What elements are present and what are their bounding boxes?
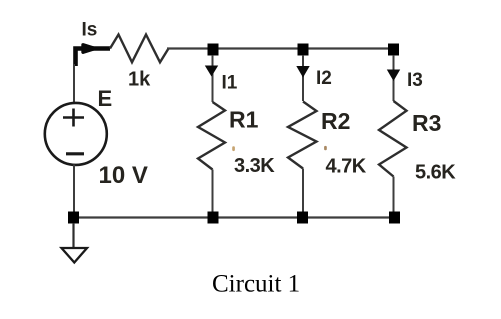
wire: R2 column upper (302, 55, 304, 101)
arrow I3 (387, 70, 400, 82)
artifact mark near R2 value (324, 146, 327, 150)
wire: R3 column upper (393, 55, 395, 101)
node junction top J3 (388, 44, 399, 56)
svg-text:R2: R2 (321, 108, 350, 134)
wire: ground stem (72, 223, 74, 248)
node junction bottom B1 (208, 212, 219, 224)
resistor R2 zigzag (288, 102, 317, 169)
arrow I1 (205, 66, 218, 77)
wire: source column below circle (73, 165, 75, 218)
artifact mark near R1 value (232, 146, 235, 151)
wire: thick source top corner (76, 49, 111, 67)
svg-text:Is: Is (82, 20, 98, 41)
wire: R3 column lower (393, 177, 395, 215)
svg-text:I3: I3 (407, 70, 423, 91)
wire: top rail (167, 47, 399, 49)
resistor R1 zigzag (198, 102, 225, 170)
svg-text:4.7K: 4.7K (326, 156, 367, 178)
wire: R1 column upper (212, 55, 214, 102)
wire: R2 column lower (302, 169, 304, 215)
wire: bottom rail (73, 216, 399, 218)
wire: source column above circle (73, 64, 75, 104)
node junction bottom B0 (68, 212, 79, 224)
wire: R1 column lower (212, 170, 214, 215)
arrow I2 (296, 66, 309, 78)
node junction bottom B3 (389, 212, 400, 224)
resistor R3 zigzag (379, 101, 407, 177)
plus sign (63, 109, 84, 127)
minus sign (66, 152, 84, 155)
ground (62, 248, 88, 263)
node junction bottom B2 (297, 212, 308, 224)
svg-text:I2: I2 (316, 68, 332, 89)
source E circle (45, 103, 107, 165)
svg-text:10 V: 10 V (99, 162, 148, 189)
svg-text:R3: R3 (412, 110, 441, 136)
svg-text:Circuit 1: Circuit 1 (212, 271, 300, 298)
node junction top J2 (298, 44, 309, 56)
node junction top J1 (208, 44, 219, 56)
node Is arrow (current direction right) (83, 45, 95, 52)
svg-text:E: E (98, 86, 113, 111)
svg-text:1k: 1k (128, 69, 151, 91)
svg-text:I1: I1 (222, 73, 238, 94)
svg-text:5.6K: 5.6K (415, 162, 456, 184)
resistor R-series 1k zigzag (110, 35, 169, 63)
svg-text:3.3K: 3.3K (234, 155, 275, 177)
svg-text:R1: R1 (229, 107, 259, 133)
